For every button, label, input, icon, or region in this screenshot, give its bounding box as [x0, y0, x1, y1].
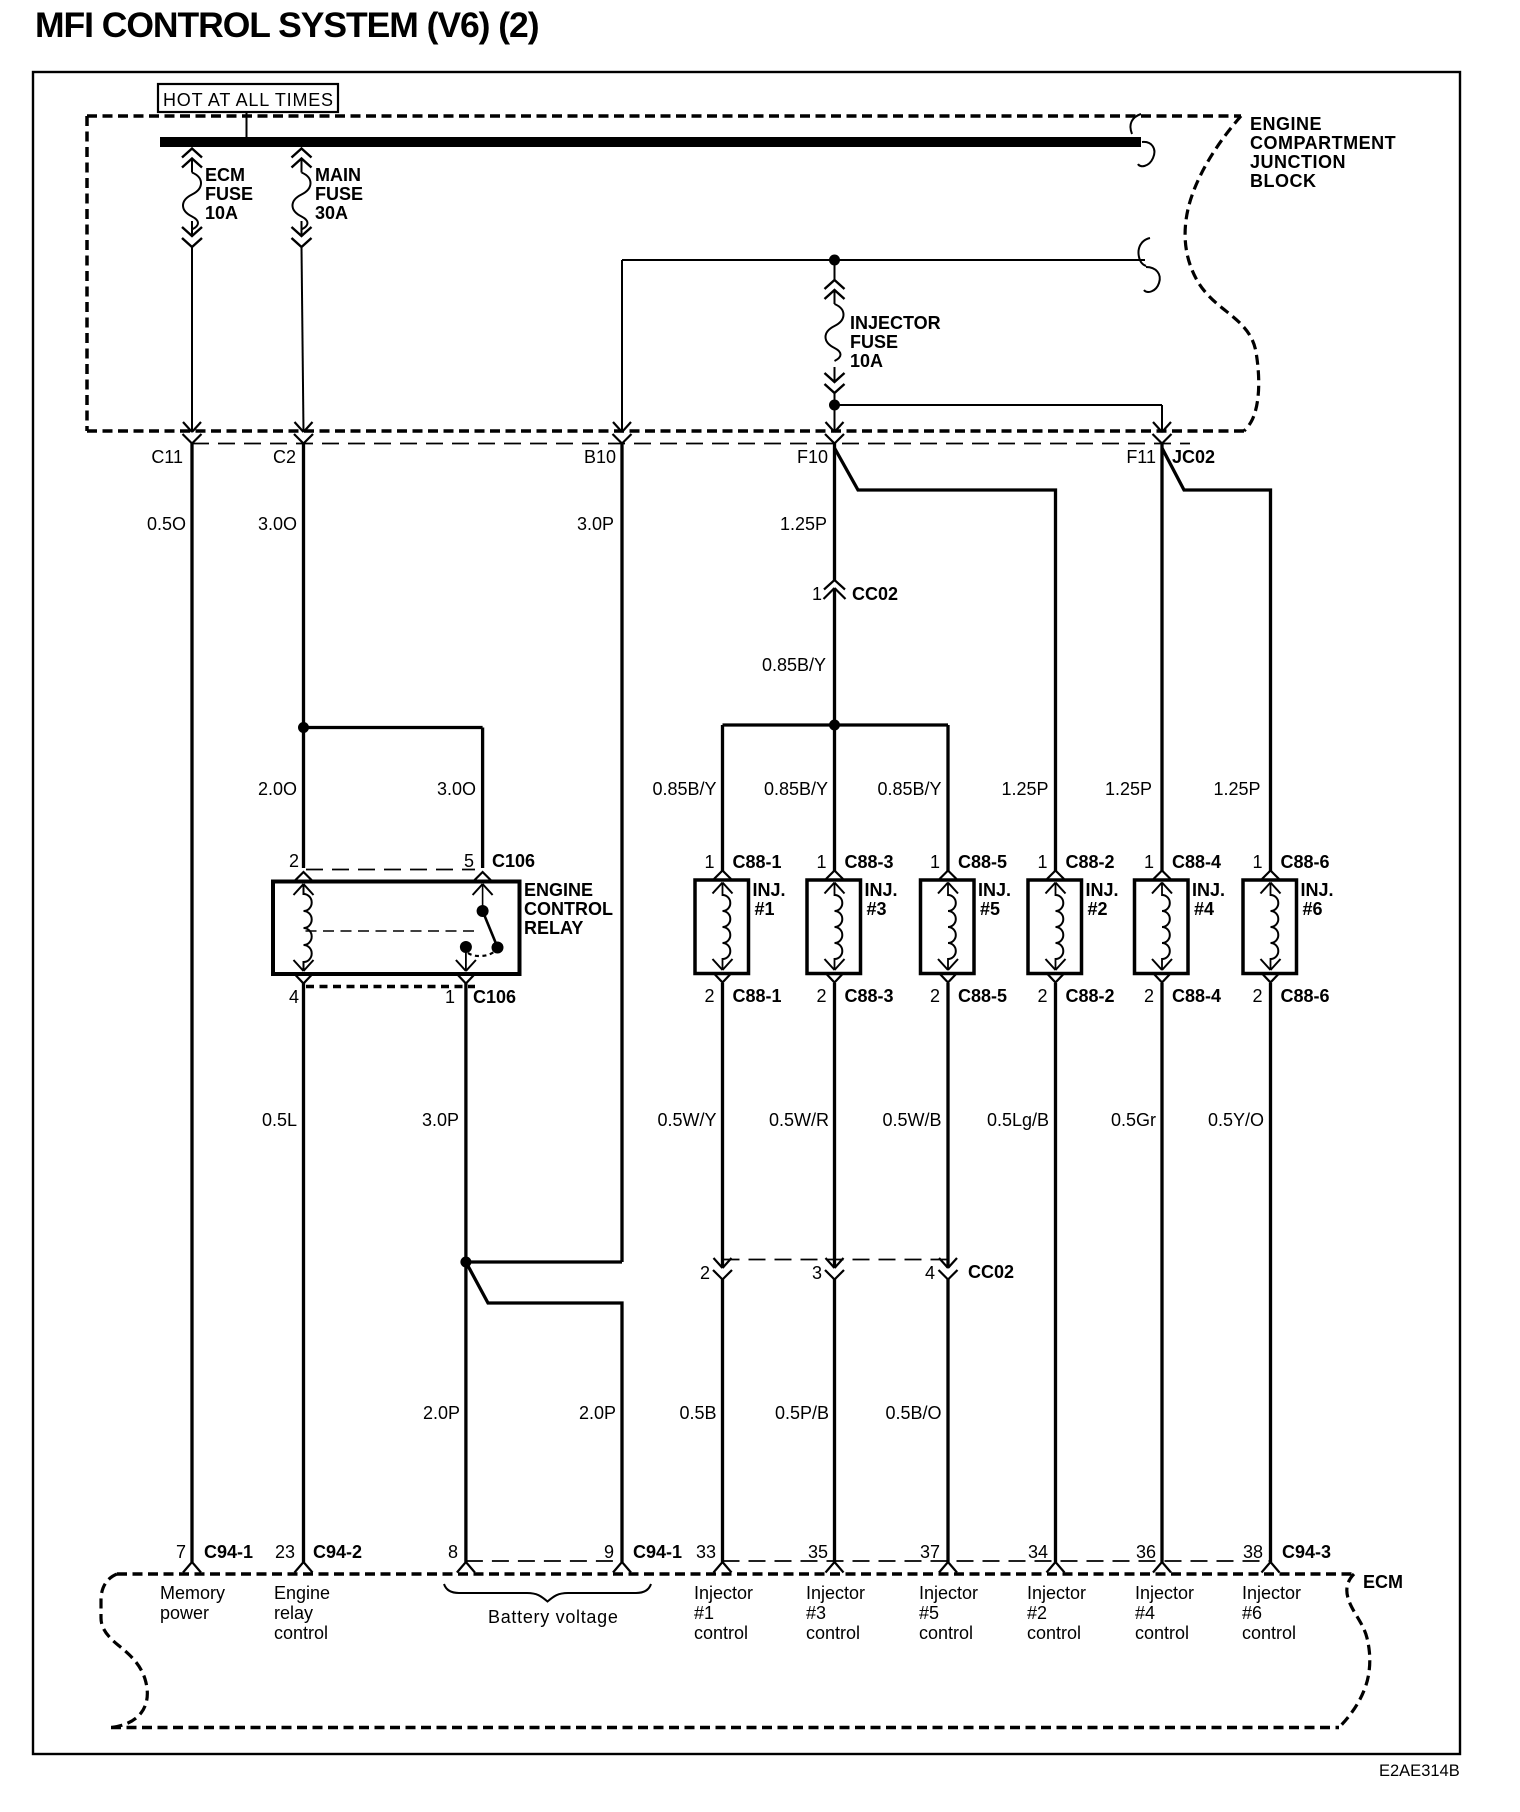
- svg-text:C88-5: C88-5: [958, 986, 1007, 1006]
- svg-text:#2: #2: [1027, 1603, 1047, 1623]
- svg-text:30A: 30A: [315, 203, 348, 223]
- svg-text:RELAY: RELAY: [524, 918, 583, 938]
- svg-text:2: 2: [930, 986, 940, 1006]
- svg-text:0.5L: 0.5L: [262, 1110, 297, 1130]
- svg-text:ENGINE: ENGINE: [524, 880, 593, 900]
- svg-text:E2AE314B: E2AE314B: [1379, 1762, 1460, 1780]
- svg-text:36: 36: [1136, 1542, 1156, 1562]
- svg-text:1.25P: 1.25P: [1213, 779, 1260, 799]
- svg-text:1: 1: [1252, 852, 1262, 872]
- svg-text:control: control: [1135, 1623, 1189, 1643]
- svg-text:#5: #5: [980, 899, 1000, 919]
- svg-text:C94-1: C94-1: [204, 1542, 253, 1562]
- svg-text:C11: C11: [151, 447, 183, 467]
- svg-text:9: 9: [604, 1542, 614, 1562]
- svg-text:1: 1: [812, 584, 822, 604]
- svg-text:HOT AT ALL TIMES: HOT AT ALL TIMES: [163, 90, 334, 110]
- svg-text:1.25P: 1.25P: [1105, 779, 1152, 799]
- svg-text:Engine: Engine: [274, 1583, 330, 1603]
- svg-text:2: 2: [816, 986, 826, 1006]
- svg-text:1: 1: [1144, 852, 1154, 872]
- svg-text:ECM: ECM: [205, 165, 245, 185]
- svg-text:0.85B/Y: 0.85B/Y: [764, 779, 828, 799]
- svg-text:3.0O: 3.0O: [437, 779, 476, 799]
- svg-text:C94-3: C94-3: [1282, 1542, 1331, 1562]
- svg-text:INJ.: INJ.: [1086, 880, 1119, 900]
- svg-text:1: 1: [816, 852, 826, 872]
- svg-text:2.0P: 2.0P: [423, 1403, 460, 1423]
- svg-text:35: 35: [808, 1542, 828, 1562]
- svg-text:Injector: Injector: [1242, 1583, 1301, 1603]
- svg-text:control: control: [806, 1623, 860, 1643]
- svg-text:C88-6: C88-6: [1281, 986, 1330, 1006]
- svg-text:Injector: Injector: [806, 1583, 865, 1603]
- svg-text:2: 2: [700, 1263, 710, 1283]
- svg-text:power: power: [160, 1603, 209, 1623]
- svg-text:#4: #4: [1135, 1603, 1155, 1623]
- svg-text:B10: B10: [584, 447, 616, 467]
- svg-text:1.25P: 1.25P: [780, 514, 827, 534]
- svg-text:C88-1: C88-1: [733, 852, 782, 872]
- svg-text:INJ.: INJ.: [978, 880, 1011, 900]
- svg-text:Injector: Injector: [694, 1583, 753, 1603]
- svg-text:C88-3: C88-3: [845, 852, 894, 872]
- svg-text:control: control: [1027, 1623, 1081, 1643]
- svg-text:2: 2: [1252, 986, 1262, 1006]
- svg-text:2: 2: [1144, 986, 1154, 1006]
- svg-text:ECM: ECM: [1363, 1572, 1403, 1592]
- svg-text:CC02: CC02: [852, 584, 898, 604]
- svg-text:0.5Y/O: 0.5Y/O: [1208, 1110, 1264, 1130]
- svg-text:#6: #6: [1242, 1603, 1262, 1623]
- svg-text:Injector: Injector: [1027, 1583, 1086, 1603]
- svg-text:control: control: [694, 1623, 748, 1643]
- svg-text:38: 38: [1243, 1542, 1263, 1562]
- svg-text:FUSE: FUSE: [315, 184, 363, 204]
- svg-text:ENGINE: ENGINE: [1250, 114, 1322, 134]
- svg-text:C106: C106: [492, 851, 535, 871]
- svg-text:CONTROL: CONTROL: [524, 899, 613, 919]
- svg-text:3.0P: 3.0P: [422, 1110, 459, 1130]
- svg-text:#1: #1: [694, 1603, 714, 1623]
- svg-text:relay: relay: [274, 1603, 313, 1623]
- svg-text:INJ.: INJ.: [865, 880, 898, 900]
- svg-text:1.25P: 1.25P: [1001, 779, 1048, 799]
- svg-text:INJECTOR: INJECTOR: [850, 313, 941, 333]
- svg-text:Injector: Injector: [919, 1583, 978, 1603]
- svg-text:F11: F11: [1126, 447, 1156, 467]
- svg-text:0.5W/B: 0.5W/B: [882, 1110, 941, 1130]
- svg-text:JUNCTION: JUNCTION: [1250, 152, 1346, 172]
- svg-text:4: 4: [289, 987, 299, 1007]
- svg-text:1: 1: [704, 852, 714, 872]
- svg-text:C88-3: C88-3: [845, 986, 894, 1006]
- svg-text:0.5W/Y: 0.5W/Y: [657, 1110, 716, 1130]
- svg-text:0.5B: 0.5B: [679, 1403, 716, 1423]
- svg-text:0.5B/O: 0.5B/O: [885, 1403, 941, 1423]
- svg-text:1: 1: [1037, 852, 1047, 872]
- svg-text:5: 5: [464, 851, 474, 871]
- svg-text:2.0P: 2.0P: [579, 1403, 616, 1423]
- svg-text:0.5O: 0.5O: [147, 514, 186, 534]
- svg-text:#3: #3: [806, 1603, 826, 1623]
- svg-text:C106: C106: [473, 987, 516, 1007]
- svg-text:C94-1: C94-1: [633, 1542, 682, 1562]
- svg-text:INJ.: INJ.: [753, 880, 786, 900]
- svg-text:37: 37: [920, 1542, 940, 1562]
- svg-text:C94-2: C94-2: [313, 1542, 362, 1562]
- svg-text:1: 1: [930, 852, 940, 872]
- svg-text:C88-2: C88-2: [1066, 852, 1115, 872]
- svg-text:C2: C2: [273, 447, 296, 467]
- svg-text:10A: 10A: [850, 351, 883, 371]
- svg-text:0.85B/Y: 0.85B/Y: [652, 779, 716, 799]
- svg-text:0.5Gr: 0.5Gr: [1111, 1110, 1156, 1130]
- svg-text:33: 33: [696, 1542, 716, 1562]
- svg-text:3.0P: 3.0P: [577, 514, 614, 534]
- svg-text:control: control: [1242, 1623, 1296, 1643]
- svg-text:C88-2: C88-2: [1066, 986, 1115, 1006]
- svg-text:2: 2: [704, 986, 714, 1006]
- svg-text:#1: #1: [755, 899, 775, 919]
- svg-text:3: 3: [812, 1263, 822, 1283]
- svg-text:Battery voltage: Battery voltage: [488, 1607, 619, 1627]
- svg-text:C88-5: C88-5: [958, 852, 1007, 872]
- svg-text:#4: #4: [1194, 899, 1214, 919]
- svg-text:7: 7: [176, 1542, 186, 1562]
- svg-text:C88-6: C88-6: [1281, 852, 1330, 872]
- svg-text:MFI CONTROL SYSTEM (V6) (2): MFI CONTROL SYSTEM (V6) (2): [35, 5, 539, 45]
- svg-text:2: 2: [1037, 986, 1047, 1006]
- svg-text:INJ.: INJ.: [1301, 880, 1334, 900]
- svg-text:#2: #2: [1088, 899, 1108, 919]
- svg-text:0.5Lg/B: 0.5Lg/B: [987, 1110, 1049, 1130]
- svg-text:C88-4: C88-4: [1172, 986, 1221, 1006]
- svg-text:0.85B/Y: 0.85B/Y: [762, 655, 826, 675]
- svg-text:JC02: JC02: [1172, 447, 1215, 467]
- svg-text:control: control: [274, 1623, 328, 1643]
- svg-text:1: 1: [445, 987, 455, 1007]
- svg-text:#5: #5: [919, 1603, 939, 1623]
- svg-text:COMPARTMENT: COMPARTMENT: [1250, 133, 1396, 153]
- svg-text:0.85B/Y: 0.85B/Y: [877, 779, 941, 799]
- svg-text:8: 8: [448, 1542, 458, 1562]
- svg-text:2: 2: [289, 851, 299, 871]
- svg-text:F10: F10: [797, 447, 828, 467]
- svg-text:INJ.: INJ.: [1192, 880, 1225, 900]
- svg-text:CC02: CC02: [968, 1262, 1014, 1282]
- svg-text:Injector: Injector: [1135, 1583, 1194, 1603]
- svg-text:10A: 10A: [205, 203, 238, 223]
- svg-text:#3: #3: [867, 899, 887, 919]
- svg-text:0.5P/B: 0.5P/B: [775, 1403, 829, 1423]
- svg-text:control: control: [919, 1623, 973, 1643]
- svg-text:#6: #6: [1303, 899, 1323, 919]
- svg-text:Memory: Memory: [160, 1583, 225, 1603]
- svg-text:C88-1: C88-1: [733, 986, 782, 1006]
- svg-text:34: 34: [1028, 1542, 1048, 1562]
- svg-text:3.0O: 3.0O: [258, 514, 297, 534]
- svg-text:0.5W/R: 0.5W/R: [769, 1110, 829, 1130]
- svg-text:MAIN: MAIN: [315, 165, 361, 185]
- svg-text:C88-4: C88-4: [1172, 852, 1221, 872]
- svg-text:BLOCK: BLOCK: [1250, 171, 1317, 191]
- svg-text:FUSE: FUSE: [850, 332, 898, 352]
- svg-text:4: 4: [925, 1263, 935, 1283]
- svg-text:2.0O: 2.0O: [258, 779, 297, 799]
- svg-text:23: 23: [275, 1542, 295, 1562]
- svg-text:FUSE: FUSE: [205, 184, 253, 204]
